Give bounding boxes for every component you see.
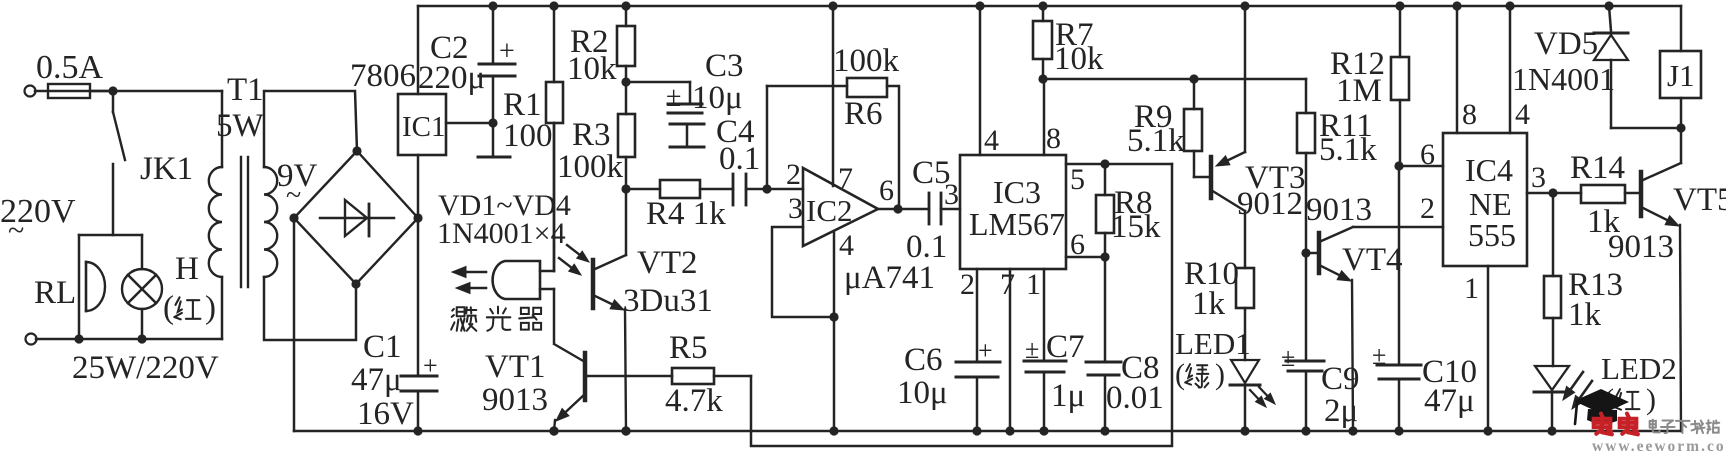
- svg-text:R6: R6: [844, 96, 883, 132]
- svg-text:2μ: 2μ: [1324, 393, 1358, 429]
- svg-text:VT4: VT4: [1342, 242, 1403, 278]
- svg-text:5.1k: 5.1k: [1319, 132, 1377, 168]
- svg-text:+: +: [423, 351, 438, 380]
- svg-text:+: +: [978, 336, 993, 365]
- svg-text:VT2: VT2: [637, 245, 698, 281]
- svg-text:4.7k: 4.7k: [665, 383, 723, 419]
- svg-text:IC1: IC1: [402, 111, 446, 143]
- svg-text:H: H: [175, 251, 199, 287]
- svg-text:4: 4: [1515, 98, 1530, 131]
- svg-text:C7: C7: [1046, 329, 1085, 365]
- svg-text:2: 2: [786, 158, 801, 191]
- svg-text:T1: T1: [227, 72, 264, 108]
- svg-text:C3: C3: [705, 48, 744, 84]
- svg-text:5: 5: [1070, 163, 1085, 196]
- svg-text:47μ: 47μ: [1424, 383, 1475, 419]
- svg-text:10μ: 10μ: [897, 375, 948, 411]
- svg-text:R14: R14: [1570, 150, 1625, 186]
- svg-text:0.1: 0.1: [719, 141, 760, 177]
- svg-text:RL: RL: [34, 275, 76, 311]
- svg-text:555: 555: [1468, 217, 1516, 253]
- svg-text:15k: 15k: [1111, 209, 1161, 245]
- svg-text:3: 3: [788, 192, 803, 225]
- svg-text:J1: J1: [1667, 58, 1695, 93]
- svg-text:8: 8: [1046, 122, 1061, 155]
- svg-text:9012: 9012: [1237, 186, 1303, 222]
- svg-text:6: 6: [1070, 228, 1085, 261]
- svg-text:220μ: 220μ: [418, 60, 485, 96]
- svg-text:μA741: μA741: [844, 260, 935, 296]
- svg-text:R3: R3: [572, 117, 611, 153]
- svg-text:VT5: VT5: [1673, 182, 1726, 218]
- svg-text:9013: 9013: [482, 382, 548, 418]
- svg-text:1M: 1M: [1336, 73, 1382, 109]
- svg-text:7806: 7806: [350, 58, 416, 94]
- svg-text:47μ: 47μ: [351, 362, 402, 398]
- svg-text:1N4001×4: 1N4001×4: [437, 217, 566, 250]
- svg-text:LM567: LM567: [969, 206, 1065, 242]
- svg-text:1N4001: 1N4001: [1512, 61, 1615, 97]
- svg-text:LED1: LED1: [1175, 326, 1251, 361]
- svg-text:~: ~: [8, 214, 24, 247]
- svg-text:±: ±: [1025, 335, 1039, 364]
- svg-text:IC2: IC2: [806, 193, 853, 228]
- svg-text:): ): [1215, 358, 1225, 391]
- svg-text:R4 1k: R4 1k: [646, 196, 726, 232]
- svg-text:(: (: [163, 290, 174, 326]
- svg-text:C6: C6: [904, 342, 943, 378]
- svg-text:±: ±: [666, 82, 681, 113]
- svg-text:VT1: VT1: [485, 349, 546, 385]
- svg-text:10k: 10k: [1054, 41, 1104, 77]
- svg-text:±: ±: [1372, 341, 1386, 370]
- svg-text:100k: 100k: [833, 43, 900, 79]
- svg-text:3: 3: [1531, 161, 1546, 194]
- svg-text:7: 7: [838, 162, 853, 195]
- svg-text:0.1: 0.1: [906, 229, 947, 265]
- svg-text:3: 3: [944, 178, 959, 211]
- svg-text:9013: 9013: [1306, 192, 1372, 228]
- svg-text:2: 2: [960, 268, 975, 301]
- svg-text:LED2: LED2: [1601, 351, 1677, 386]
- svg-text:0.01: 0.01: [1106, 380, 1164, 416]
- svg-text:8: 8: [1462, 98, 1477, 131]
- svg-text:4: 4: [984, 124, 999, 157]
- svg-text:10k: 10k: [567, 51, 617, 87]
- svg-text:+: +: [499, 36, 515, 67]
- svg-text:4: 4: [839, 229, 854, 262]
- svg-text:C1: C1: [363, 329, 402, 365]
- svg-text:): ): [1646, 383, 1656, 416]
- svg-text:1: 1: [1464, 272, 1479, 305]
- svg-text:3Du31: 3Du31: [623, 283, 713, 319]
- svg-text:C9: C9: [1321, 361, 1360, 397]
- svg-text:): ): [205, 290, 216, 326]
- svg-text:5W: 5W: [216, 108, 265, 144]
- svg-text:±: ±: [1281, 343, 1295, 372]
- svg-text:JK1: JK1: [140, 151, 193, 187]
- svg-text:6: 6: [1420, 138, 1435, 171]
- svg-text:100k: 100k: [557, 149, 624, 185]
- svg-text:1k: 1k: [1568, 297, 1602, 333]
- svg-text:~: ~: [286, 180, 301, 211]
- svg-text:1k: 1k: [1192, 286, 1226, 322]
- svg-text:25W/220V: 25W/220V: [72, 350, 219, 386]
- svg-text:5.1k: 5.1k: [1127, 123, 1185, 159]
- svg-text:1μ: 1μ: [1051, 378, 1085, 414]
- svg-text:(: (: [1175, 358, 1185, 391]
- svg-text:9013: 9013: [1608, 229, 1674, 265]
- svg-text:www.eeworm.com: www.eeworm.com: [1592, 438, 1726, 452]
- svg-text:1: 1: [1026, 268, 1041, 301]
- svg-text:0.5A: 0.5A: [36, 49, 104, 86]
- svg-text:R5: R5: [669, 330, 708, 366]
- svg-text:IC4: IC4: [1465, 152, 1513, 188]
- svg-text:VD5: VD5: [1534, 26, 1598, 62]
- svg-text:7: 7: [1000, 268, 1015, 301]
- svg-text:6: 6: [879, 174, 894, 207]
- svg-text:100: 100: [503, 118, 553, 154]
- svg-text:16V: 16V: [357, 396, 414, 432]
- svg-text:10μ: 10μ: [692, 80, 743, 116]
- svg-text:2: 2: [1420, 192, 1435, 225]
- svg-text:IC3: IC3: [993, 174, 1041, 210]
